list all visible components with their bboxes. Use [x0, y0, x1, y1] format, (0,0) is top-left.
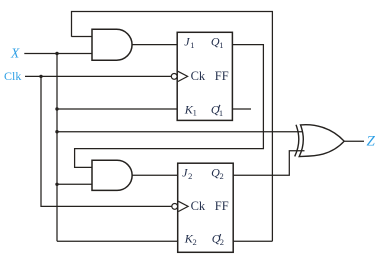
wire AND2 output to J2 [132, 174, 178, 176]
wire top feedback rail (Q2' to AND1) [72, 12, 273, 242]
wire Q1' stub [232, 108, 251, 110]
wire Q2 to XOR bottom input [233, 151, 304, 176]
wire X vertical bus [56, 54, 58, 242]
node dot X to XOR junction [55, 130, 58, 133]
XOR gate [295, 125, 345, 157]
AND gate A2 [92, 160, 132, 190]
svg-text:1: 1 [190, 40, 194, 50]
svg-text:Clk: Clk [4, 69, 21, 83]
wire AND1 top input [72, 36, 93, 38]
svg-text:1: 1 [193, 108, 197, 118]
wire XOR output Z [344, 140, 364, 142]
svg-text:2: 2 [188, 171, 192, 181]
flip-flop U2 box [178, 163, 234, 252]
svg-text:X: X [10, 45, 20, 60]
svg-text:1: 1 [219, 40, 223, 50]
flip-flop U1 clock wedge [178, 71, 188, 81]
flip-flop U1 clock bubble [171, 74, 177, 80]
node dot X to K1 junction [55, 107, 58, 110]
svg-text:Z: Z [367, 133, 376, 149]
wire XOR top input from X [57, 131, 303, 133]
flip-flop U2 clock wedge [178, 201, 188, 211]
svg-text:FF: FF [215, 199, 229, 213]
node dot Clk junction [39, 75, 42, 78]
wire Clk vertical to FF2 [41, 76, 172, 206]
flip-flop U1 box [177, 32, 232, 120]
svg-text:Ck: Ck [191, 199, 206, 213]
svg-text:FF: FF [215, 69, 229, 83]
wire Q1 feedback to AND2 [75, 45, 264, 168]
svg-text:2: 2 [193, 237, 197, 247]
flip-flop U2 clock bubble [172, 204, 178, 210]
wire K2 input from X [57, 240, 178, 242]
wire AND2 bottom input from X [57, 183, 92, 185]
wire AND1 output to J1 [132, 44, 177, 46]
wire Q2' to feedback rail [233, 240, 272, 242]
svg-text:2: 2 [220, 171, 224, 181]
svg-text:Ck: Ck [191, 69, 206, 83]
node dot X to AND1 junction [55, 52, 58, 55]
wire K1 input from X [57, 108, 177, 110]
svg-text:2: 2 [220, 237, 224, 247]
AND gate A1 [92, 29, 132, 60]
wire X input [24, 53, 92, 55]
wire Clk input [25, 75, 172, 77]
svg-text:1: 1 [219, 108, 223, 118]
node dot X to AND2 junction [55, 183, 58, 186]
